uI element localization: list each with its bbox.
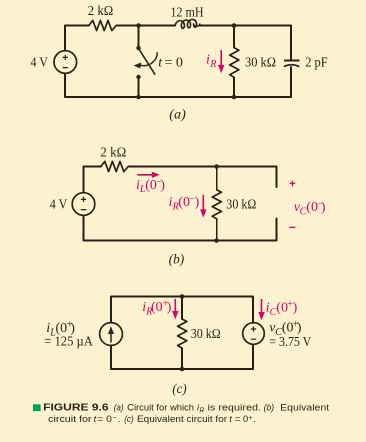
current arrow iR(0-) (b) <box>200 195 206 218</box>
wire: (c) left rail lower <box>110 345 112 369</box>
wire: (b) top rail left segment <box>84 166 102 168</box>
svg-text:= 0: = 0 <box>235 414 248 424</box>
wire: (c) right rail lower <box>252 344 254 369</box>
svg-text:.: . <box>254 414 257 424</box>
svg-text:Equivalent circuit for: Equivalent circuit for <box>137 414 227 424</box>
svg-text:t: t <box>229 414 232 424</box>
node dot: (a) bottom rail / switch branch <box>136 95 141 100</box>
switch contact dot upper (a) <box>136 46 140 50</box>
caption line 1 <box>43 403 330 415</box>
svg-text:+: + <box>249 415 253 422</box>
voltage source V1 4V (a) <box>54 51 77 74</box>
wire: (a) switch branch upper <box>138 26 140 49</box>
voltage label vC(0-) (b) <box>294 199 326 218</box>
voltage source vC(0+) (c) <box>243 323 265 345</box>
wire: (b) right bottom stub <box>276 219 278 241</box>
source label vC(0+) (c) <box>269 319 301 338</box>
wire: (c) right rail upper <box>252 297 254 324</box>
current arrow iC(0+) (c) <box>258 299 264 320</box>
svg-text:FIGURE 9.6: FIGURE 9.6 <box>43 403 109 414</box>
svg-text:30 kΩ: 30 kΩ <box>245 56 276 71</box>
svg-text:): ) <box>160 178 165 193</box>
source label iL(0+) (c) <box>46 320 75 339</box>
svg-text:(0: (0 <box>276 301 288 316</box>
svg-text:circuit for: circuit for <box>48 414 91 424</box>
label - terminal (b) magenta <box>289 226 295 228</box>
svg-text:30 kΩ: 30 kΩ <box>191 327 221 342</box>
wire: (a) left rail lower <box>64 73 66 97</box>
svg-text:): ) <box>297 321 302 336</box>
current arrow iL(0-) (b) <box>137 172 160 178</box>
svg-text:): ) <box>293 301 298 316</box>
svg-text:(0: (0 <box>151 300 163 315</box>
current arrow iR(0+) (c) <box>172 299 178 319</box>
switch SW (a) opening arc with arrow <box>139 52 158 65</box>
wire: (c) top rail <box>111 296 253 298</box>
wire: (b) 30k branch upper <box>216 167 218 190</box>
wire: (a) top rail right segment <box>200 25 291 27</box>
svg-text:(0: (0 <box>306 200 318 215</box>
wire: (c) 30k branch upper <box>181 297 183 320</box>
wire: (c) bottom rail <box>111 368 253 370</box>
svg-text:): ) <box>167 300 172 315</box>
voltage source V1 4V (b) <box>72 193 95 216</box>
node dot: (a) bottom rail / 30k branch <box>232 95 237 100</box>
node dot: (b) bottom rail / 30k branch <box>214 238 219 243</box>
wire: (b) bottom rail <box>84 240 277 242</box>
wire: (a) top rail between resistor and inductor <box>116 25 175 27</box>
svg-text:= 3.75 V: = 3.75 V <box>269 335 311 350</box>
svg-text:4 V: 4 V <box>31 56 49 71</box>
caption line 2 <box>48 414 256 424</box>
current source iL(0+) (c) <box>100 323 123 346</box>
current label iR (a) magenta <box>206 52 216 70</box>
switch SW (a) blade <box>139 49 155 74</box>
svg-text:(a): (a) <box>114 403 124 413</box>
resistor 30 kΩ (a) zigzag <box>230 48 239 78</box>
svg-text:t: t <box>94 414 97 424</box>
svg-text:R: R <box>209 59 216 70</box>
node dot: (a) top rail / switch branch <box>136 23 141 28</box>
svg-text:): ) <box>195 195 200 210</box>
wire: (a) left rail upper <box>64 26 66 51</box>
resistor 2 kΩ (b) zigzag <box>101 161 128 171</box>
svg-text:30 kΩ: 30 kΩ <box>226 197 256 212</box>
svg-text:is required.: is required. <box>208 403 262 413</box>
svg-text:(0: (0 <box>145 178 157 193</box>
caption green square <box>33 404 41 411</box>
svg-text:(0: (0 <box>282 321 294 336</box>
current label iR(0-) (b) <box>169 194 200 213</box>
svg-text:.: . <box>118 414 121 424</box>
svg-text:2 kΩ: 2 kΩ <box>100 145 126 160</box>
wire: (a) switch branch lower <box>138 77 140 97</box>
wire: (b) 30k branch lower <box>216 219 218 241</box>
svg-text:Circuit for which: Circuit for which <box>127 403 194 413</box>
svg-text:(a): (a) <box>169 107 186 122</box>
current label iL(0-) (b) <box>136 176 165 195</box>
svg-text:(c): (c) <box>172 381 187 396</box>
wire: (a) 30 kΩ branch upper <box>233 26 235 48</box>
current label iC(0+) (c) <box>266 299 298 318</box>
inductor 12 mH (a) <box>175 19 200 28</box>
resistor 2 kΩ (a) zigzag <box>89 20 116 30</box>
wire: (a) right rail below capacitor <box>290 67 292 97</box>
svg-text:(c): (c) <box>124 414 134 424</box>
svg-text:): ) <box>321 200 326 215</box>
node dot: (c) top rail / 30k branch <box>180 294 185 299</box>
node dot: (c) bottom rail / 30k branch <box>180 367 185 372</box>
node dot: (a) top rail / 30k branch <box>232 23 237 28</box>
wire: (b) left rail upper <box>83 167 85 193</box>
svg-text:(0: (0 <box>178 195 190 210</box>
switch contact dot lower (a) <box>136 75 140 79</box>
resistor 30 kΩ (c) zigzag <box>178 319 187 348</box>
svg-text:= 125 µA: = 125 µA <box>44 335 93 350</box>
wire: (a) top rail left segment <box>65 25 89 27</box>
capacitor 2 pF (a) <box>284 61 300 67</box>
current label iR(0+) (c) <box>142 299 172 318</box>
svg-text:(b): (b) <box>169 252 185 267</box>
label t = 0 (a) <box>158 56 183 71</box>
wire: (b) left rail lower <box>83 215 85 240</box>
svg-text:−: − <box>112 415 116 422</box>
current arrow iR (a) <box>218 50 224 73</box>
svg-text:12 mH: 12 mH <box>171 5 204 20</box>
svg-text:= 0: = 0 <box>97 414 112 424</box>
wire: (b) right top stub <box>276 167 278 188</box>
wire: (c) 30k branch lower <box>181 348 183 369</box>
wire: (c) left rail upper <box>110 297 112 323</box>
svg-text:(b): (b) <box>264 403 275 413</box>
wire: (a) right rail above capacitor <box>290 26 292 61</box>
svg-text:4 V: 4 V <box>50 197 68 212</box>
wire: (b) top rail right segment <box>128 166 276 168</box>
label + terminal (b) magenta <box>290 181 296 187</box>
svg-text:= 0: = 0 <box>165 56 183 71</box>
node dot: (b) top rail / 30k branch <box>214 164 219 169</box>
resistor 30 kΩ (b) zigzag <box>212 190 221 219</box>
svg-text:2 pF: 2 pF <box>305 55 328 70</box>
wire: (a) 30 kΩ branch lower <box>233 77 235 97</box>
svg-text:2 kΩ: 2 kΩ <box>88 4 113 19</box>
svg-text:Equivalent: Equivalent <box>280 403 329 413</box>
wire: (a) bottom rail <box>65 96 291 98</box>
